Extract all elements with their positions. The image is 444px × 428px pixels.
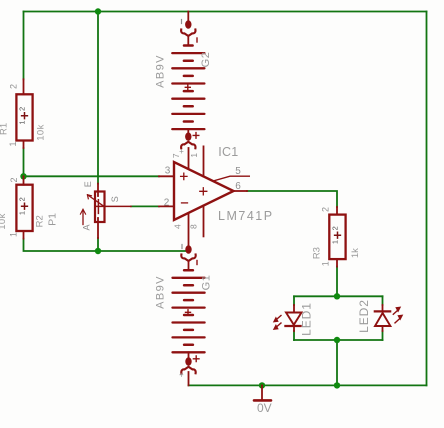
svg-text:G2: G2 <box>200 52 212 68</box>
wire LED1 to bottom bar <box>293 331 295 340</box>
svg-text:LED2: LED2 <box>357 299 371 333</box>
svg-text:A: A <box>82 224 92 230</box>
wire left rail to R1 <box>23 12 25 80</box>
svg-text:IC1: IC1 <box>218 145 238 159</box>
node junction R3-LED <box>334 293 340 299</box>
svg-text:1: 1 <box>189 153 199 158</box>
wire junction to op-amp pin 3 <box>24 175 160 177</box>
svg-text:2: 2 <box>9 84 19 89</box>
node junction P1 A <box>95 248 101 254</box>
LED LED2 <box>375 305 403 331</box>
svg-text:R1: R1 <box>0 123 9 135</box>
node junction LED-rail <box>334 382 340 388</box>
svg-text:2: 2 <box>18 107 27 111</box>
svg-text:G1: G1 <box>201 275 213 291</box>
svg-text:4: 4 <box>172 224 182 229</box>
svg-text:1: 1 <box>321 261 331 266</box>
wire LED node to bottom rail <box>336 340 338 385</box>
wire P1 A to bus <box>97 238 99 251</box>
svg-text:+: + <box>179 371 184 380</box>
svg-text:1: 1 <box>8 141 18 146</box>
wire R2 bottom to bus <box>24 239 189 251</box>
resistor R3 <box>329 207 345 267</box>
wire top rail <box>24 11 427 13</box>
svg-text:1: 1 <box>18 211 27 215</box>
svg-text:1k: 1k <box>350 248 361 258</box>
node junction R1-R2 <box>20 173 26 179</box>
svg-text:2: 2 <box>9 177 19 182</box>
svg-text:+: + <box>179 147 184 156</box>
wire LED bottom bar <box>294 339 383 341</box>
svg-text:10k: 10k <box>0 213 8 230</box>
svg-text:LM741P: LM741P <box>218 209 274 223</box>
wire P1 wiper to op-amp pin 2 <box>131 205 159 207</box>
svg-text:S: S <box>110 196 120 202</box>
LED LED1 <box>274 305 302 331</box>
svg-text:2: 2 <box>331 226 340 230</box>
ground 0V <box>254 385 271 400</box>
wire bottom rail <box>189 384 427 386</box>
svg-text:2: 2 <box>18 197 27 201</box>
wire mid vertical to P1 <box>97 12 99 184</box>
svg-text:1: 1 <box>18 121 27 125</box>
node junction ground <box>259 382 265 388</box>
wire right rail <box>426 12 428 386</box>
battery G1 <box>181 245 197 270</box>
wire LED2 to bottom bar <box>382 331 384 340</box>
potentiometer P1 <box>80 184 131 238</box>
svg-text:1: 1 <box>331 240 340 244</box>
wire LED2 branch <box>382 296 384 305</box>
svg-text:1: 1 <box>9 232 19 237</box>
svg-text:E: E <box>83 181 93 187</box>
svg-text:R3: R3 <box>311 247 322 259</box>
svg-text:10k: 10k <box>36 124 47 141</box>
resistor R1 <box>16 79 32 148</box>
svg-text:AB9V: AB9V <box>154 275 166 309</box>
svg-text:AB9V: AB9V <box>154 54 166 88</box>
svg-text:2: 2 <box>321 207 331 212</box>
battery G2 <box>181 12 197 45</box>
svg-text:0V: 0V <box>257 401 272 415</box>
node junction LED bottom <box>334 337 340 343</box>
svg-text:P1: P1 <box>47 213 59 226</box>
svg-text:5: 5 <box>235 166 241 177</box>
resistor R2 <box>16 176 32 238</box>
wire op-amp output to R3 <box>247 191 337 207</box>
op-amp IC1 <box>159 146 249 245</box>
wire R3 to LED top node <box>336 267 338 297</box>
svg-text:R2: R2 <box>34 215 45 227</box>
node junction top <box>95 8 101 14</box>
svg-text:LED1: LED1 <box>300 302 314 336</box>
svg-text:3: 3 <box>165 166 171 177</box>
wire R1 to junction <box>23 148 25 176</box>
svg-text:8: 8 <box>189 224 199 229</box>
svg-text:6: 6 <box>235 181 241 192</box>
wire LED top bar <box>294 295 383 297</box>
svg-text:2: 2 <box>164 198 170 209</box>
wire LED1 branch <box>293 296 295 305</box>
